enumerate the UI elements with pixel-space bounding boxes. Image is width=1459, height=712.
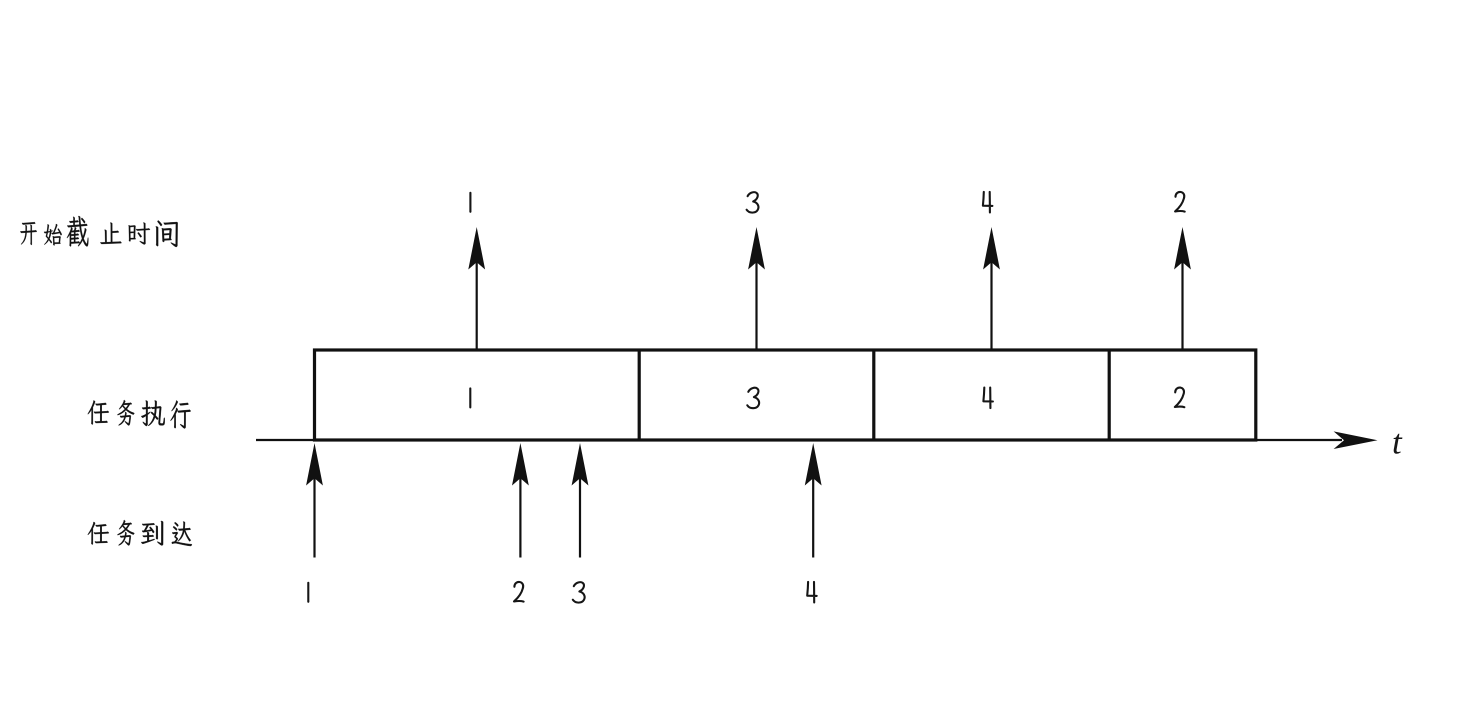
deadline label 4 — [983, 192, 993, 213]
axis arrowhead — [1334, 431, 1378, 449]
arrival arrow for task 1 — [306, 443, 323, 558]
deadline label 3 — [747, 192, 759, 212]
svg-text:t: t — [1392, 423, 1403, 462]
arrival label 1 — [307, 583, 309, 602]
box label 4 — [983, 388, 993, 409]
deadline arrow for task 3 — [748, 227, 765, 350]
arrival label 4 — [807, 582, 817, 603]
box divider 1 — [638, 350, 641, 440]
label: arrival row 任务到达 — [88, 520, 192, 546]
deadline label 2 — [1175, 192, 1185, 212]
arrival arrow for task 3 — [572, 443, 589, 558]
box label 1 — [469, 388, 471, 407]
label: execution row 任务执行 — [88, 400, 191, 428]
arrival arrow for task 4 — [805, 443, 822, 558]
deadline arrow for task 4 — [983, 227, 1000, 350]
timeline axis — [256, 439, 1342, 441]
box label 2 — [1175, 388, 1185, 408]
arrival label 3 — [573, 582, 585, 602]
arrival label 2 — [514, 582, 524, 602]
label: deadline row 开始截止时间 — [20, 216, 177, 247]
deadline label 1 — [469, 193, 471, 212]
deadline arrow for task 2 — [1174, 227, 1191, 350]
deadline arrow for task 1 — [468, 227, 485, 350]
box divider 2 — [872, 350, 875, 440]
task execution boxes outline — [315, 350, 1256, 440]
box label 3 — [747, 388, 759, 408]
arrival arrow for task 2 — [512, 443, 529, 558]
box divider 3 — [1108, 350, 1111, 440]
